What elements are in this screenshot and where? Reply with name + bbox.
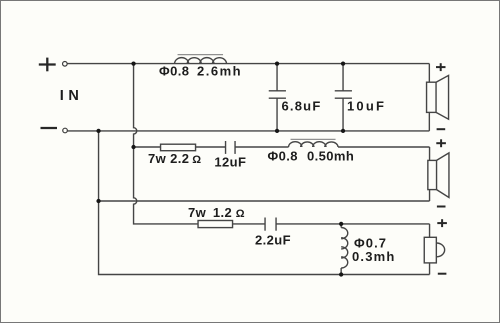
svg-text:0.50mh: 0.50mh xyxy=(307,148,354,163)
svg-text:1.2: 1.2 xyxy=(213,205,232,220)
svg-text:2.6mh: 2.6mh xyxy=(197,64,242,79)
svg-text:7w: 7w xyxy=(188,205,207,220)
svg-text:0.3mh: 0.3mh xyxy=(352,249,396,264)
svg-text:2.2uF: 2.2uF xyxy=(255,233,291,248)
svg-text:Ω: Ω xyxy=(192,154,201,166)
svg-text:6.8uF: 6.8uF xyxy=(282,98,322,113)
svg-text:IN: IN xyxy=(60,88,84,104)
svg-text:Φ0.8: Φ0.8 xyxy=(159,64,189,79)
svg-text:Ω: Ω xyxy=(236,208,245,220)
svg-text:7w 2.2: 7w 2.2 xyxy=(148,151,189,166)
svg-text:Φ0.8: Φ0.8 xyxy=(268,148,298,163)
svg-text:12uF: 12uF xyxy=(214,155,246,170)
svg-text:10uF: 10uF xyxy=(347,98,386,113)
